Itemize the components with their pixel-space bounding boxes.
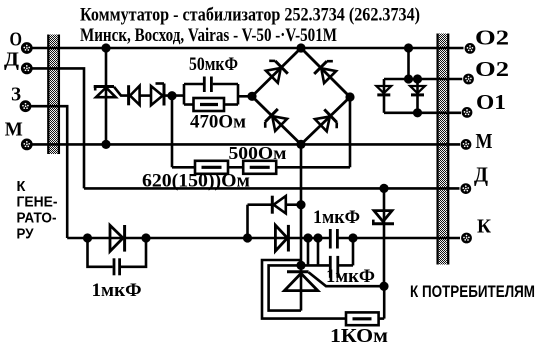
node after diode chain [167, 91, 176, 100]
wire stub x308 [307, 238, 310, 265]
svg-text:К: К [477, 216, 491, 238]
bridge diode bottom-right [315, 109, 340, 134]
svg-text:К: К [17, 179, 26, 195]
svg-text:РАТО-: РАТО- [17, 210, 57, 226]
node bridge left [247, 92, 256, 101]
svg-text:1КОм: 1КОм [330, 326, 388, 345]
wire bridge right vertex down to 500 row [349, 97, 352, 167]
diode VD8 (parallel pair left, points down) [376, 79, 391, 113]
resistor R row box2 [243, 161, 276, 174]
svg-text:1мкФ: 1мкФ [92, 280, 142, 301]
node bridge top [296, 43, 305, 52]
node K line x87.5 [83, 233, 92, 242]
bridge diode top-left [263, 58, 288, 83]
wire O1 rail y112.8 [384, 112, 461, 115]
node O1 rail x417.5 [413, 108, 422, 117]
wire D line y=188.4 (620 row) [84, 187, 460, 190]
terminal K right [461, 233, 472, 244]
wire vertical x408.5 O line to O2 rail [407, 48, 410, 79]
wire stub x318 [317, 238, 320, 265]
wire center vertical x301 [300, 144, 303, 310]
svg-text:О2: О2 [475, 26, 509, 50]
terminal M right [461, 139, 472, 150]
svg-text:ГЕНЕ-: ГЕНЕ- [17, 194, 58, 210]
node center x301 y265.4 [296, 261, 305, 270]
node O2 rail x417.5 [413, 74, 422, 83]
svg-text:Д: Д [4, 48, 19, 70]
svg-text:О1: О1 [476, 90, 506, 114]
svg-text:О: О [10, 29, 23, 51]
svg-text:Минск, Восход, Vairas - V-50 -: Минск, Восход, Vairas - V-50 -·V-501M [80, 25, 337, 46]
thyristor VS1 (big diode, points up) [284, 272, 384, 291]
right connector bar [438, 34, 449, 265]
svg-text:З: З [11, 83, 21, 105]
node D line / zener branch [379, 184, 388, 193]
wire x353 up to K line [352, 238, 355, 265]
node O line x106 [101, 43, 110, 52]
nodes on K line [303, 233, 312, 242]
bridge diode bottom-left [262, 109, 287, 134]
wire outer loop [262, 260, 346, 319]
node bridge right [345, 92, 354, 101]
zener VD1 on x106 [94, 87, 129, 98]
bridge diode top-right [314, 58, 339, 83]
svg-text:1мкФ: 1мкФ [313, 207, 360, 228]
node bridge bottom [296, 140, 305, 149]
diode VD9 (parallel pair right, points down) [410, 79, 425, 113]
terminal O1 right [462, 107, 473, 118]
wire vertical x106 from O line to M line [105, 48, 108, 144]
svg-text:М: М [5, 119, 23, 141]
wire Z-left: horizontal then down to K line [31, 106, 67, 238]
resistor 470Om box [194, 98, 225, 111]
svg-text:О2: О2 [475, 57, 509, 81]
RC block 50mkF / 470Om [184, 84, 238, 105]
svg-text:М: М [476, 129, 493, 153]
wire inner loop [269, 265, 301, 310]
wire lower branch y265.4 [301, 264, 330, 267]
diode VD2 (series, points left) [129, 85, 151, 105]
capacitor C 50mkF plates [204, 77, 211, 93]
node O2 rail x408.5 [404, 74, 413, 83]
terminal O left [21, 42, 33, 54]
terminal O2 right 1 [465, 43, 476, 54]
resistor 1KOm [346, 286, 384, 325]
svg-text:Д: Д [474, 163, 488, 187]
svg-text:1мкФ: 1мкФ [326, 266, 375, 287]
diode bridge frame [252, 48, 350, 144]
500 Om row wires [172, 166, 195, 169]
node right x384 y286.2 [379, 282, 388, 291]
terminal D right [460, 183, 471, 194]
capacitor C left 1mkF branch [88, 238, 147, 275]
diode VD6 (left bottom, points right) [110, 225, 125, 252]
node K line x146 [141, 233, 150, 242]
svg-text:620(150))Ом: 620(150))Ом [142, 172, 250, 192]
terminal D left [21, 63, 33, 75]
svg-text:470Ом: 470Ом [190, 112, 246, 132]
wire O2-2 rail y79 [384, 78, 462, 81]
node M line x106 [101, 140, 110, 149]
wire RC to bridge left vertex [238, 95, 252, 98]
node O line x408.5 [404, 43, 413, 52]
left connector bar [48, 35, 59, 155]
svg-text:РУ: РУ [17, 226, 35, 242]
zener VD7 (points down) [372, 211, 394, 224]
wire D-left: horizontal then down [32, 68, 84, 188]
svg-text:Коммутатор - стабилизатор 252.: Коммутатор - стабилизатор 252.3734 (262.… [80, 5, 420, 26]
resistor R row box1 [195, 161, 228, 174]
node K line x247.5 [243, 233, 252, 242]
wire vertical x384 from D line to node y286 [383, 188, 386, 286]
svg-text:К ПОТРЕБИТЕЛЯМ: К ПОТРЕБИТЕЛЯМ [410, 283, 535, 301]
terminal M left [21, 139, 33, 151]
diode VD3 (series, points right, bent bar top) [151, 84, 184, 106]
capacitor C up 1mkF plates (on K line) [330, 229, 337, 249]
wire O line (top horizontal) [32, 47, 464, 50]
capacitor C low 1mkF plates [330, 256, 338, 278]
terminal Z left [20, 100, 32, 112]
wire VD4 left lead down [246, 205, 249, 238]
wire vertical x172 down to 500 row [171, 96, 174, 168]
node VD4 right [296, 200, 305, 209]
wire M line (horizontal) [32, 143, 460, 146]
diode VD4 (upper, points left) with leads [248, 196, 302, 214]
terminal O2 right 2 [463, 74, 474, 85]
diode VD5 (on K line, points right) [275, 225, 288, 252]
svg-text:500Ом: 500Ом [229, 143, 287, 163]
wire K main line [67, 237, 330, 240]
svg-text:50мкФ: 50мкФ [189, 54, 238, 75]
